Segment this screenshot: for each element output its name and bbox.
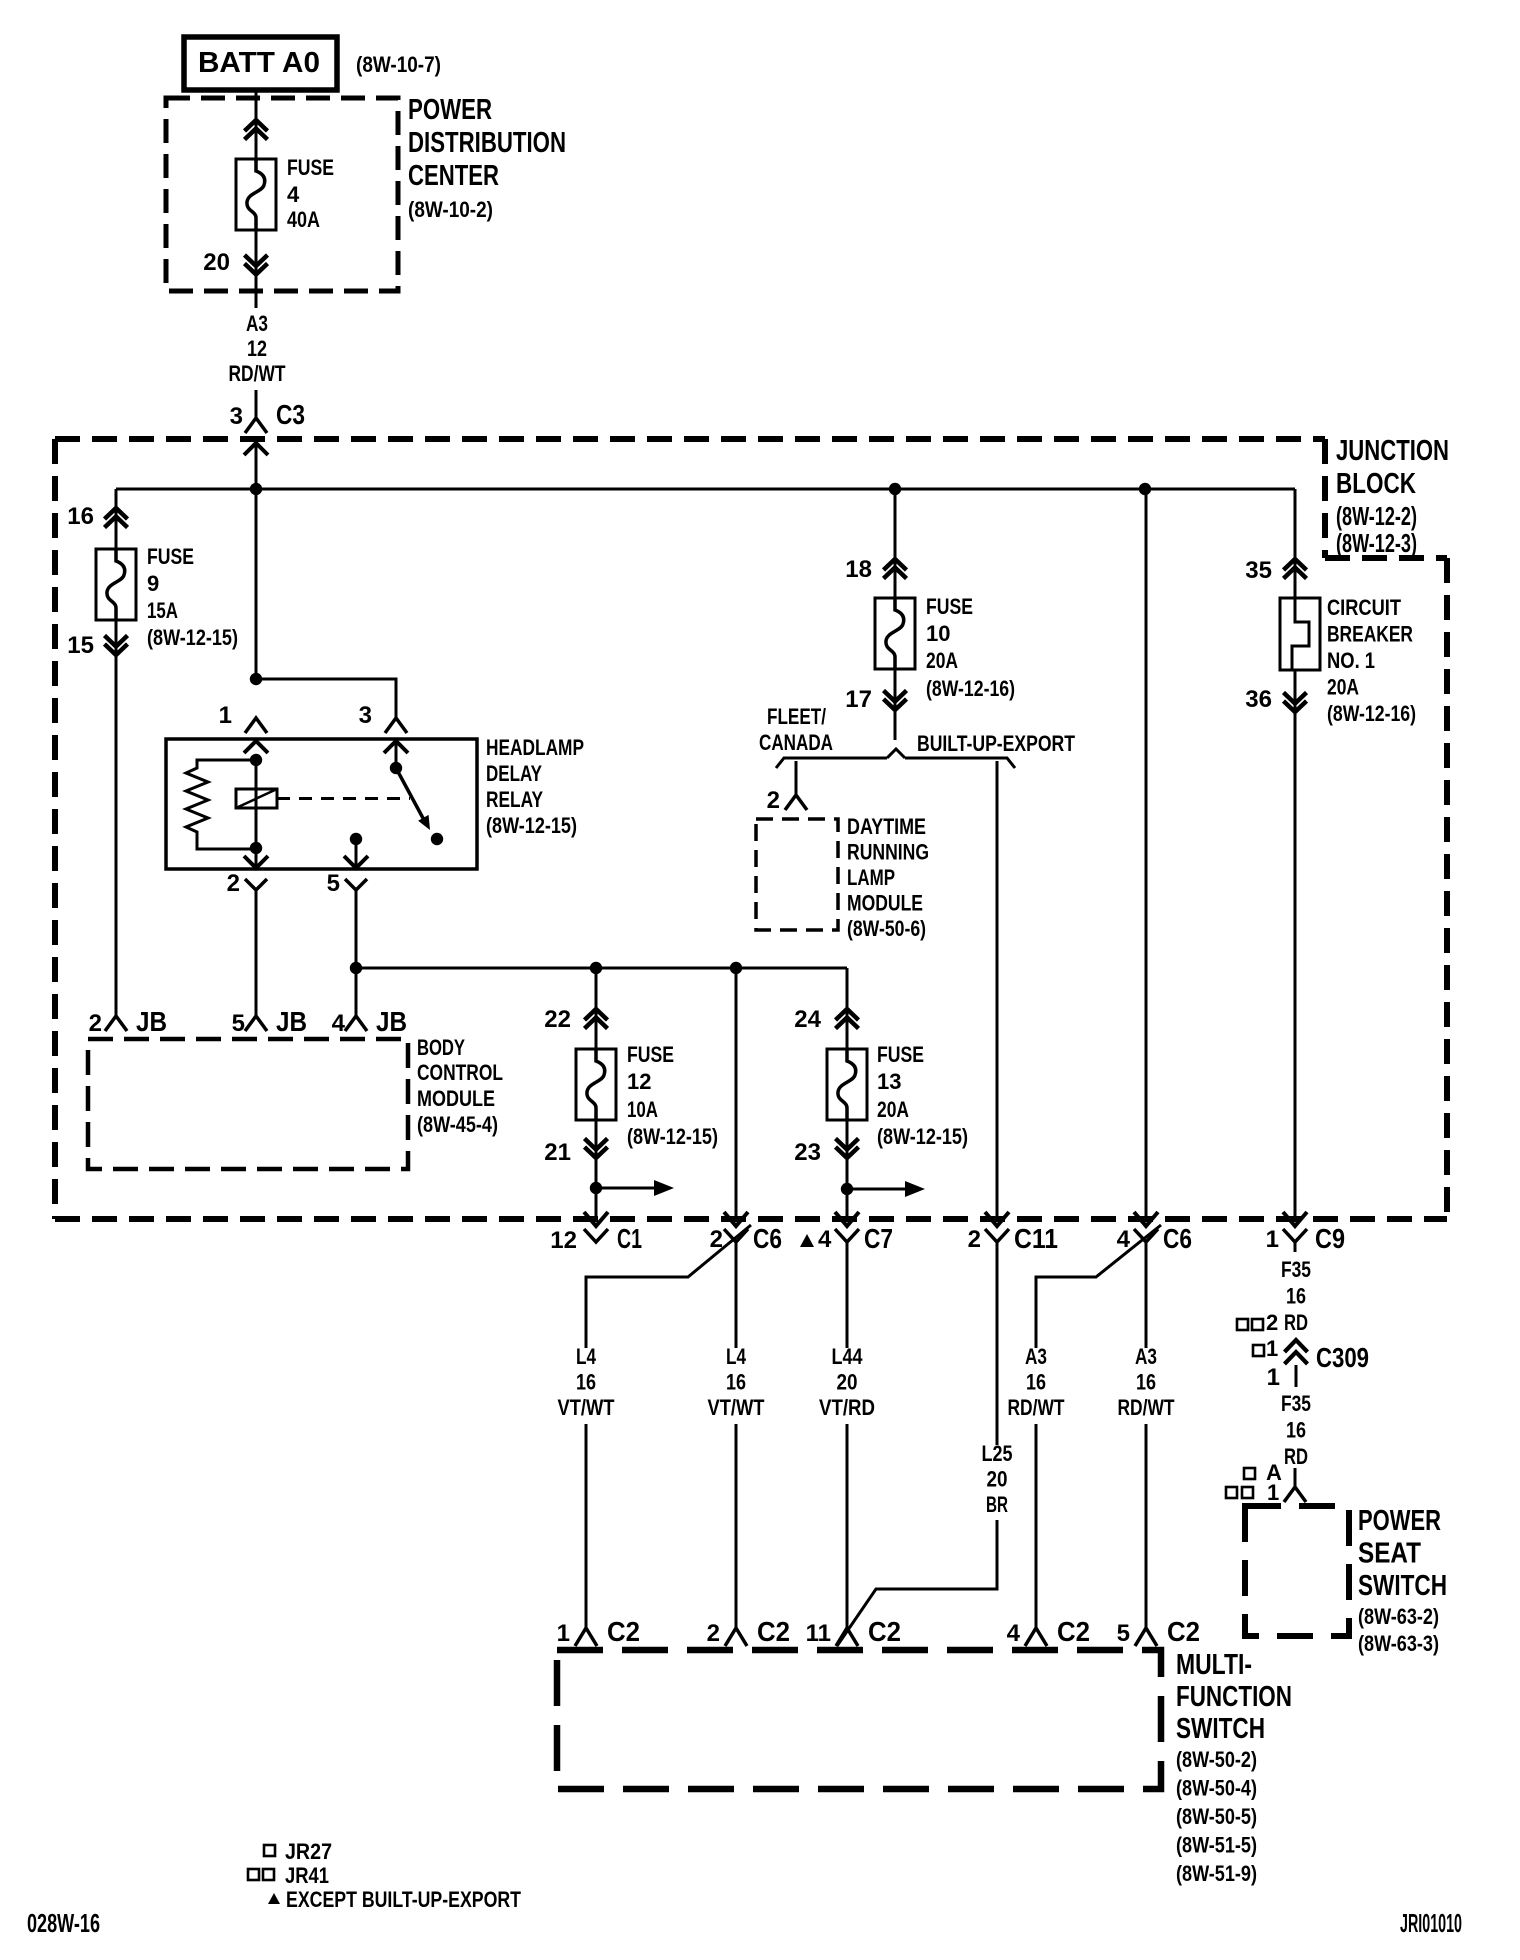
- splice marker squares 1b: [1226, 1480, 1279, 1505]
- wire to connector C3: [255, 390, 258, 418]
- svg-text:SWITCH: SWITCH: [1176, 1713, 1265, 1745]
- relay switch blade: [396, 768, 430, 830]
- connector C2 pin 2 label: [707, 1616, 790, 1647]
- connector C2 pin 5: [1135, 1628, 1157, 1646]
- connector JB pin 2 label: [89, 1006, 167, 1037]
- fuse F10: [875, 598, 915, 669]
- relay coil bottom node: [250, 842, 262, 854]
- svg-text:2: 2: [968, 1226, 981, 1253]
- svg-text:CONTROL: CONTROL: [417, 1060, 503, 1085]
- wire circuit breaker to C9: [1294, 670, 1297, 1222]
- svg-text:JB: JB: [376, 1006, 407, 1037]
- svg-text:20A: 20A: [926, 648, 958, 673]
- svg-text:028W-16: 028W-16: [27, 1908, 100, 1938]
- relay pin 2 label below: [227, 870, 240, 897]
- svg-text:10A: 10A: [627, 1097, 658, 1122]
- multi-function switch label: [1176, 1649, 1292, 1886]
- wire L25 route to 11 C2: [837, 1520, 997, 1646]
- connector C9 female: [1283, 1229, 1307, 1252]
- connector C2 pin 1 label: [557, 1616, 640, 1647]
- svg-text:VT/WT: VT/WT: [558, 1395, 615, 1420]
- wire label F35 upper: [1281, 1257, 1311, 1335]
- svg-text:BUILT-UP-EXPORT: BUILT-UP-EXPORT: [917, 731, 1075, 756]
- connector C2 pin 4 label: [1007, 1616, 1090, 1647]
- svg-text:4: 4: [287, 182, 300, 207]
- wire label A3 12 RD/WT: [229, 311, 286, 386]
- reference (8W-10-7): [356, 52, 441, 77]
- svg-text:CENTER: CENTER: [408, 160, 499, 192]
- svg-text:RD/WT: RD/WT: [229, 361, 286, 386]
- fleet/canada label: [759, 704, 833, 755]
- pin 23 arrow: [836, 1139, 859, 1159]
- bus node at C3 drop: [250, 483, 262, 495]
- battery feed BATT A0 box: [184, 37, 337, 90]
- pin 18 arrow: [884, 559, 907, 579]
- wire label L25: [982, 1441, 1013, 1517]
- svg-text:DISTRIBUTION: DISTRIBUTION: [408, 127, 566, 159]
- relay resistor: [186, 760, 256, 849]
- fuse F4: [236, 159, 276, 230]
- node C6 tap: [730, 962, 742, 974]
- svg-text:BATT A0: BATT A0: [198, 47, 320, 79]
- connector C3 label: [230, 399, 305, 430]
- fuse F13 label: [877, 1042, 968, 1149]
- svg-text:12: 12: [627, 1069, 651, 1094]
- feed arrow right from fuse 13: [847, 1181, 925, 1197]
- daytime running lamp module label: [847, 814, 929, 941]
- svg-text:BLOCK: BLOCK: [1336, 468, 1416, 500]
- svg-text:VT/WT: VT/WT: [708, 1395, 765, 1420]
- relay switch contact: [431, 833, 443, 845]
- fuse F10 label: [926, 594, 1015, 701]
- svg-text:RUNNING: RUNNING: [847, 840, 929, 865]
- daytime running lamp module box: [756, 819, 838, 930]
- wire tap to C6: [735, 968, 738, 1222]
- svg-text:L44: L44: [832, 1344, 864, 1369]
- svg-text:4: 4: [818, 1226, 832, 1253]
- connector C11 arrow: [985, 1212, 1009, 1226]
- pin 22 arrow: [585, 1009, 608, 1029]
- connector C11 label: [968, 1223, 1058, 1254]
- svg-text:(8W-10-7): (8W-10-7): [356, 52, 441, 77]
- svg-text:BODY: BODY: [417, 1035, 465, 1060]
- svg-text:13: 13: [877, 1069, 901, 1094]
- svg-text:12: 12: [550, 1227, 577, 1254]
- wire label A3 left: [1008, 1344, 1065, 1420]
- svg-text:L4: L4: [726, 1344, 747, 1369]
- svg-text:SWITCH: SWITCH: [1358, 1570, 1447, 1602]
- connector C6 female: [724, 1229, 748, 1242]
- pin 23 label: [794, 1139, 821, 1166]
- legend JR27: [264, 1839, 332, 1864]
- node feed bus lower: [350, 962, 362, 974]
- wire C6 diagonal branch: [586, 1225, 751, 1348]
- drawing number JRI01010: [1400, 1908, 1462, 1938]
- svg-text:36: 36: [1245, 686, 1272, 713]
- svg-text:1: 1: [557, 1620, 570, 1647]
- svg-text:1: 1: [1267, 1364, 1280, 1391]
- svg-text:17: 17: [845, 686, 872, 713]
- svg-text:3: 3: [359, 702, 372, 729]
- fuse F13: [827, 1049, 867, 1120]
- svg-text:F35: F35: [1281, 1391, 1311, 1416]
- connector DRL pin 2 label: [767, 787, 780, 814]
- relay pin 1 label: [219, 702, 232, 729]
- connector C1 label: [550, 1223, 642, 1254]
- connector C2 pin 2: [725, 1628, 747, 1646]
- wire to relay pin 3: [256, 679, 396, 718]
- svg-text:C6: C6: [1163, 1223, 1192, 1254]
- svg-text:(8W-12-2): (8W-12-2): [1336, 501, 1417, 531]
- wire fuse 4 to pin 20: [255, 229, 258, 308]
- option split brace: [776, 749, 1015, 768]
- svg-text:16: 16: [726, 1370, 746, 1395]
- svg-text:(8W-63-3): (8W-63-3): [1358, 1631, 1439, 1656]
- svg-text:C7: C7: [864, 1223, 893, 1254]
- fuse F12: [576, 1049, 616, 1120]
- wire to DRL pin 2: [795, 761, 798, 795]
- relay pin 3 connector: [384, 718, 408, 753]
- svg-text:JR41: JR41: [285, 1863, 329, 1888]
- svg-text:(8W-50-2): (8W-50-2): [1176, 1747, 1257, 1772]
- lower feed wire: [356, 967, 847, 970]
- relay dashed actuator link: [277, 797, 410, 800]
- svg-text:1: 1: [1267, 1480, 1279, 1505]
- svg-text:RD/WT: RD/WT: [1008, 1395, 1065, 1420]
- svg-text:9: 9: [147, 571, 159, 596]
- wire bus to circuit breaker: [1294, 489, 1297, 598]
- svg-text:15A: 15A: [147, 598, 178, 623]
- wire bus to C6 pin 4: [1145, 489, 1148, 1222]
- svg-text:(8W-51-5): (8W-51-5): [1176, 1833, 1257, 1858]
- svg-text:(8W-63-2): (8W-63-2): [1358, 1604, 1439, 1629]
- svg-text:BREAKER: BREAKER: [1327, 622, 1413, 647]
- node fuse12 out: [590, 1182, 602, 1194]
- svg-text:DELAY: DELAY: [486, 761, 542, 786]
- connector JB pin 5 label: [232, 1006, 307, 1037]
- svg-text:5: 5: [1117, 1620, 1130, 1647]
- svg-text:A3: A3: [1135, 1344, 1157, 1369]
- wire C11 down: [996, 1242, 999, 1445]
- connector C2 pin 5 label: [1117, 1616, 1200, 1647]
- svg-text:4: 4: [1117, 1226, 1131, 1253]
- svg-text:(8W-50-5): (8W-50-5): [1176, 1804, 1257, 1829]
- svg-text:2: 2: [767, 787, 780, 814]
- svg-text:FUSE: FUSE: [926, 594, 973, 619]
- connector C7 label: [818, 1223, 893, 1254]
- bus wire: [116, 488, 1295, 491]
- svg-text:16: 16: [1136, 1370, 1156, 1395]
- connector power seat pin A: [1284, 1468, 1306, 1502]
- svg-text:F35: F35: [1281, 1257, 1311, 1282]
- svg-text:C2: C2: [1057, 1616, 1090, 1647]
- svg-text:(8W-12-15): (8W-12-15): [877, 1124, 968, 1149]
- wire A3 right to C2: [1145, 1424, 1148, 1628]
- relay pin 5 contact: [344, 833, 368, 869]
- body control module box: [88, 1039, 408, 1169]
- pin 17 arrow: [884, 691, 907, 711]
- svg-text:(8W-50-4): (8W-50-4): [1176, 1776, 1257, 1801]
- connector JB pin 4: [345, 1016, 367, 1031]
- connector arrow into PDC: [245, 120, 268, 140]
- svg-text:2: 2: [89, 1010, 102, 1037]
- svg-text:4: 4: [1007, 1620, 1021, 1647]
- svg-text:C11: C11: [1014, 1223, 1058, 1254]
- svg-text:C9: C9: [1315, 1223, 1345, 1254]
- pin 22 label: [544, 1006, 571, 1033]
- fuse F4 label: [287, 155, 334, 232]
- wire bus to fuse 9: [115, 489, 118, 549]
- svg-text:40A: 40A: [287, 207, 320, 232]
- svg-text:(8W-50-6): (8W-50-6): [847, 916, 926, 941]
- svg-text:POWER: POWER: [1358, 1505, 1441, 1537]
- svg-text:20A: 20A: [1327, 675, 1359, 700]
- wire export branch to C11: [996, 761, 999, 1222]
- wire tap to fuse 13: [846, 968, 849, 1049]
- wire L44 to C2: [846, 1424, 849, 1628]
- svg-text:A3: A3: [246, 311, 268, 336]
- svg-text:MODULE: MODULE: [417, 1086, 495, 1111]
- svg-text:RD/WT: RD/WT: [1118, 1395, 1175, 1420]
- svg-text:(8W-12-3): (8W-12-3): [1336, 528, 1417, 558]
- wire C7 down: [846, 1242, 849, 1348]
- svg-text:16: 16: [1026, 1370, 1046, 1395]
- svg-text:DAYTIME: DAYTIME: [847, 814, 926, 839]
- pin 36 label: [1245, 686, 1272, 713]
- svg-text:RD: RD: [1284, 1444, 1308, 1469]
- svg-text:NO. 1: NO. 1: [1327, 648, 1375, 673]
- pin 15 label: [67, 632, 94, 659]
- wire L4 left to C2: [585, 1424, 588, 1628]
- svg-text:JRI01010: JRI01010: [1400, 1908, 1462, 1938]
- svg-text:20: 20: [987, 1467, 1008, 1492]
- pin 18 label: [845, 556, 872, 583]
- svg-text:15: 15: [67, 632, 94, 659]
- relay coil feed node: [250, 754, 262, 766]
- pin 24 arrow: [836, 1009, 859, 1029]
- svg-text:5: 5: [327, 870, 340, 897]
- wire fuse 9 to JB pin 2: [115, 620, 118, 1016]
- legend JR41: [248, 1863, 329, 1888]
- svg-text:12: 12: [247, 336, 267, 361]
- pin 20 label: [203, 249, 230, 276]
- svg-text:10: 10: [926, 621, 950, 646]
- connector C9 arrow: [1283, 1212, 1307, 1226]
- relay coil: [236, 760, 277, 848]
- wire A3 left to C2: [1035, 1424, 1038, 1628]
- pin 15 arrow: [105, 636, 128, 656]
- svg-text:1: 1: [1266, 1336, 1278, 1361]
- svg-text:(8W-51-9): (8W-51-9): [1176, 1861, 1257, 1886]
- connector C2 pin 11 label: [806, 1616, 901, 1647]
- wire label L4 left: [558, 1344, 615, 1420]
- pin 35 arrow: [1284, 559, 1307, 579]
- svg-text:24: 24: [794, 1006, 821, 1033]
- svg-text:2: 2: [1266, 1310, 1278, 1335]
- svg-text:JB: JB: [276, 1006, 307, 1037]
- svg-text:MODULE: MODULE: [847, 891, 923, 916]
- svg-text:FUSE: FUSE: [287, 155, 334, 180]
- relay label: [486, 735, 584, 838]
- pin 17 label: [845, 686, 872, 713]
- svg-text:23: 23: [794, 1139, 821, 1166]
- svg-text:20: 20: [203, 249, 230, 276]
- splice marker square 1: [1253, 1336, 1278, 1361]
- svg-text:21: 21: [544, 1139, 571, 1166]
- connector C7 arrow: [835, 1212, 859, 1226]
- body control module label: [417, 1035, 503, 1137]
- svg-text:18: 18: [845, 556, 872, 583]
- relay pin 2 connector below: [245, 879, 267, 890]
- pin 24 label: [794, 1006, 821, 1033]
- svg-text:HEADLAMP: HEADLAMP: [486, 735, 584, 760]
- legend except built-up-export: [268, 1887, 521, 1912]
- connector C7 female: [835, 1229, 859, 1242]
- svg-text:C2: C2: [1167, 1616, 1200, 1647]
- connector C6b label: [1117, 1223, 1192, 1254]
- svg-text:(8W-12-15): (8W-12-15): [486, 813, 577, 838]
- svg-text:20: 20: [837, 1370, 858, 1395]
- relay pin 5 label below: [327, 870, 340, 897]
- wire fuse 12 to C1: [595, 1120, 598, 1222]
- relay pin 2 exit arrow: [244, 848, 268, 869]
- svg-text:4: 4: [332, 1010, 346, 1037]
- wire C6b straight down: [1145, 1242, 1148, 1348]
- junction block dashed border: [55, 439, 1447, 1219]
- svg-text:1: 1: [219, 702, 232, 729]
- bus node at C6 drop: [1139, 483, 1151, 495]
- node fuse12 tap: [590, 962, 602, 974]
- fuse F9: [96, 549, 136, 620]
- svg-text:FLEET/: FLEET/: [767, 704, 826, 729]
- svg-text:(8W-12-15): (8W-12-15): [627, 1124, 718, 1149]
- svg-text:LAMP: LAMP: [847, 865, 895, 890]
- pin 20 arrow: [245, 255, 268, 275]
- fuse F12 label: [627, 1042, 718, 1149]
- connector C2 pin 1: [575, 1628, 597, 1646]
- svg-text:L4: L4: [576, 1344, 597, 1369]
- svg-text:MULTI-: MULTI-: [1176, 1649, 1252, 1681]
- svg-text:FUNCTION: FUNCTION: [1176, 1681, 1292, 1713]
- connector JB pin 2: [105, 1016, 127, 1031]
- svg-text:16: 16: [576, 1370, 596, 1395]
- pin 21 label: [544, 1139, 571, 1166]
- svg-text:L25: L25: [982, 1441, 1013, 1466]
- svg-text:JR27: JR27: [285, 1839, 332, 1864]
- wire label L4 right: [708, 1344, 765, 1420]
- connector C309: [1285, 1340, 1308, 1387]
- svg-text:JB: JB: [136, 1006, 167, 1037]
- circuit breaker label: [1327, 595, 1416, 726]
- svg-text:FUSE: FUSE: [627, 1042, 674, 1067]
- power seat switch label: [1358, 1505, 1447, 1656]
- pin 36 arrow: [1284, 693, 1307, 713]
- connector C2 pin 4: [1025, 1628, 1047, 1646]
- wire relay pin5 to JB4: [355, 890, 358, 1016]
- connector C11 female: [985, 1229, 1009, 1242]
- connector C7 triangle marker: [800, 1234, 814, 1247]
- svg-text:C309: C309: [1316, 1342, 1369, 1373]
- pin 16 label: [67, 503, 94, 530]
- connector C309 label: [1267, 1342, 1369, 1391]
- connector C1 arrow: [584, 1212, 608, 1226]
- svg-text:(8W-12-15): (8W-12-15): [147, 625, 238, 650]
- svg-text:A3: A3: [1025, 1344, 1047, 1369]
- relay K1 headlamp delay relay box: [166, 739, 477, 869]
- svg-text:22: 22: [544, 1006, 571, 1033]
- relay pin 5 connector below: [345, 879, 367, 890]
- splice marker squares 2: [1237, 1310, 1278, 1335]
- svg-text:35: 35: [1245, 557, 1272, 584]
- svg-text:SEAT: SEAT: [1358, 1538, 1421, 1570]
- svg-text:16: 16: [1286, 1418, 1306, 1443]
- connector C2 pin 11: [836, 1628, 858, 1646]
- relay switch pivot: [390, 741, 402, 774]
- relay pin 1 connector: [244, 718, 268, 753]
- svg-text:C2: C2: [757, 1616, 790, 1647]
- svg-text:11: 11: [806, 1620, 831, 1647]
- connector C3: [244, 418, 268, 455]
- wire label A3 right: [1118, 1344, 1175, 1420]
- svg-text:CANADA: CANADA: [759, 730, 833, 755]
- svg-text:BR: BR: [986, 1492, 1008, 1517]
- wire bus to fuse 10: [894, 489, 897, 598]
- connector C6b arrow: [1134, 1212, 1158, 1226]
- wire label L44: [819, 1344, 875, 1420]
- connector JB pin 5: [245, 1016, 267, 1031]
- pin 21 arrow: [585, 1139, 608, 1159]
- power seat switch box: [1245, 1506, 1349, 1636]
- wire batt to fuse 4: [255, 90, 258, 159]
- svg-text:C2: C2: [868, 1616, 901, 1647]
- svg-text:3: 3: [230, 403, 243, 430]
- svg-text:(8W-10-2): (8W-10-2): [408, 197, 493, 222]
- pin 35 label: [1245, 557, 1272, 584]
- circuit breaker no. 1: [1280, 598, 1320, 670]
- splice marker square A: [1244, 1460, 1282, 1485]
- svg-text:VT/RD: VT/RD: [819, 1395, 875, 1420]
- fuse F9 label: [147, 544, 238, 650]
- built-up-export label: [917, 731, 1075, 756]
- svg-text:FUSE: FUSE: [147, 544, 194, 569]
- bus node at fuse 10 drop: [889, 483, 901, 495]
- svg-text:C3: C3: [276, 399, 305, 430]
- svg-text:(8W-45-4): (8W-45-4): [417, 1112, 498, 1137]
- wire fuse 10 to split: [894, 670, 897, 740]
- connector C6b female: [1134, 1229, 1158, 1242]
- connector C6 label: [710, 1223, 782, 1254]
- svg-text:(8W-12-16): (8W-12-16): [926, 676, 1015, 701]
- svg-text:(8W-12-16): (8W-12-16): [1327, 701, 1416, 726]
- feed arrow right from fuse 12: [596, 1180, 674, 1196]
- svg-text:2: 2: [227, 870, 240, 897]
- connector C9 label: [1266, 1223, 1345, 1254]
- wire fuse 13 to C7: [846, 1120, 849, 1222]
- svg-text:RD: RD: [1284, 1310, 1308, 1335]
- wire C3 to bus and relay: [255, 443, 258, 679]
- connector C1 female: [584, 1229, 608, 1242]
- svg-text:EXCEPT BUILT-UP-EXPORT: EXCEPT BUILT-UP-EXPORT: [286, 1887, 521, 1912]
- svg-text:C6: C6: [753, 1223, 782, 1254]
- multi-function switch box: [557, 1650, 1161, 1789]
- relay pin 3 label: [359, 702, 372, 729]
- junction block label: [1336, 435, 1449, 558]
- node fuse13 out: [841, 1183, 853, 1195]
- svg-text:1: 1: [1266, 1226, 1279, 1253]
- svg-text:5: 5: [232, 1010, 245, 1037]
- svg-text:FUSE: FUSE: [877, 1042, 924, 1067]
- wire C6b diagonal branch: [1036, 1225, 1161, 1348]
